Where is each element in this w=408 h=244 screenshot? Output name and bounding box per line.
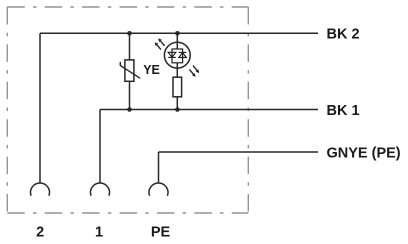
wire BK1 horizontal (pin1 to label)	[100, 109, 318, 111]
svg-text:1: 1	[95, 225, 103, 241]
svg-text:2: 2	[36, 225, 44, 241]
wire pin2 vertical drop	[39, 33, 41, 183]
junction dot BK2/LED	[175, 31, 180, 36]
wire BK2 horizontal (pin2 to label)	[40, 32, 318, 34]
pin contact PE (arc)	[149, 183, 168, 196]
svg-text:BK 2: BK 2	[327, 27, 360, 43]
connector housing outline (dash-dot frame)	[7, 7, 248, 213]
wire LED branch middle (circle to resistor)	[176, 63, 178, 77]
wire varistor branch top	[129, 33, 131, 59]
LED light arrows (upper-left pair)	[155, 38, 165, 49]
wire varistor branch bottom	[129, 81, 131, 110]
wire LED branch top	[176, 33, 178, 49]
wire GNYE horizontal (PE pin to label)	[159, 151, 319, 153]
pin contact 1 (arc)	[91, 183, 110, 196]
wire PE pin vertical drop	[158, 152, 160, 183]
LED internal anti-parallel diodes	[168, 49, 186, 63]
wire LED branch bottom (resistor to BK1)	[176, 97, 178, 110]
resistor (LED series)	[173, 77, 182, 97]
LED (yellow) circle	[164, 42, 190, 68]
LED light arrows (lower-right pair)	[189, 66, 199, 77]
wire pin1 vertical drop	[99, 110, 101, 184]
svg-text:PE: PE	[151, 225, 171, 241]
svg-text:GNYE (PE): GNYE (PE)	[327, 145, 401, 161]
junction dot BK2/varistor	[127, 31, 132, 36]
svg-text:BK 1: BK 1	[327, 103, 360, 119]
junction dot BK1/LED	[175, 107, 180, 112]
svg-text:YE: YE	[143, 63, 160, 77]
pin contact 2 (arc)	[31, 183, 50, 196]
junction dot BK1/varistor	[127, 107, 132, 112]
varistor (suppressor) body	[120, 60, 140, 81]
